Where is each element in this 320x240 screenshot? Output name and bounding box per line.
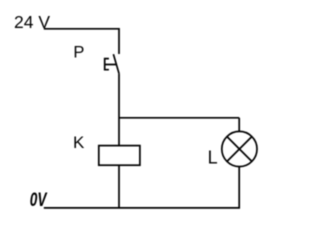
wire from relay coil K to 0V rail (118, 165, 120, 208)
lamp L body (222, 131, 257, 166)
svg-text:L: L (208, 148, 218, 168)
svg-text:K: K (73, 133, 85, 152)
svg-text:P: P (73, 43, 84, 61)
wire 24V rail with corner down to switch P (44, 29, 119, 54)
svg-text:0V: 0V (30, 189, 48, 211)
lamp L cross (227, 137, 252, 162)
pushbutton P contact blade (113, 54, 119, 74)
wire 0V rail with corner up to lamp L (44, 167, 239, 208)
relay coil K body (99, 146, 140, 166)
pushbutton P actuator (105, 59, 117, 70)
node junction T to lamp branch (119, 117, 239, 119)
wire branch vertical down to lamp L (238, 118, 240, 132)
wire from switch P down to relay coil K (118, 74, 120, 146)
